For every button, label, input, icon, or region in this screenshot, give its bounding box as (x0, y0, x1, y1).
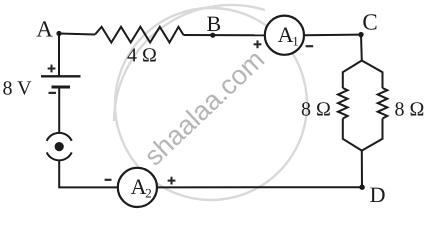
svg-text:8 Ω: 8 Ω (395, 99, 425, 121)
svg-text:A: A (36, 17, 53, 42)
svg-text:1: 1 (292, 34, 299, 49)
svg-text:A: A (131, 174, 147, 199)
svg-text:D: D (370, 182, 386, 207)
svg-text:8 V: 8 V (3, 77, 33, 99)
svg-text:8 Ω: 8 Ω (301, 99, 331, 121)
svg-text:4 Ω: 4 Ω (127, 45, 157, 67)
svg-text:A: A (278, 22, 294, 47)
svg-text:B: B (207, 11, 222, 36)
svg-text:2: 2 (145, 186, 152, 201)
svg-text:C: C (362, 10, 377, 35)
